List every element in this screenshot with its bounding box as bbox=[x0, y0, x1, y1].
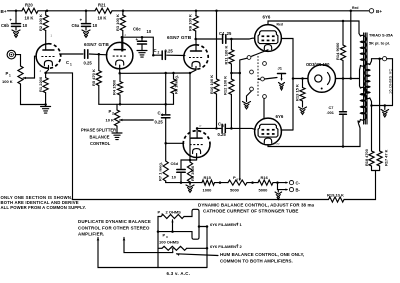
ground bbox=[247, 91, 252, 102]
svg-text:16 OHMS VC: 16 OHMS VC bbox=[389, 68, 393, 94]
resistor R10 bbox=[216, 11, 218, 79]
ground bbox=[141, 44, 143, 51]
svg-text:OD3/VR-150: OD3/VR-150 bbox=[306, 62, 330, 67]
svg-text:1: 1 bbox=[70, 63, 72, 67]
svg-text:R8 100 K: R8 100 K bbox=[188, 14, 193, 31]
svg-text:J1: J1 bbox=[278, 66, 283, 71]
wire to C- B- terminals bbox=[273, 182, 287, 184]
svg-text:PHASE SPLITTER: PHASE SPLITTER bbox=[81, 128, 116, 133]
svg-text:R21: R21 bbox=[98, 3, 106, 8]
svg-text:C6c: C6c bbox=[133, 27, 141, 32]
resistor R14 bbox=[342, 21, 344, 45]
svg-text:DYNAMIC BALANCE CONTROL, ADJU: DYNAMIC BALANCE CONTROL, ADJUST FOR 38 m… bbox=[198, 202, 315, 207]
filament 6Y6 number 2 bbox=[158, 227, 199, 240]
svg-text:10: 10 bbox=[93, 23, 98, 28]
svg-text:R20: R20 bbox=[25, 3, 33, 8]
potentiometer P2 bbox=[116, 104, 118, 110]
wire cathode 6Y6#1 to switch bbox=[252, 50, 269, 57]
transformer TRIAD S-35A primary bbox=[361, 35, 366, 66]
svg-text:5: 5 bbox=[222, 124, 224, 128]
ground bbox=[189, 183, 191, 185]
svg-text:6Y6 FILAMENT: 6Y6 FILAMENT bbox=[210, 244, 239, 249]
svg-text:+: + bbox=[9, 18, 12, 23]
capacitor C6c bbox=[141, 37, 143, 40]
transformer core bbox=[363, 33, 365, 124]
svg-text:6SN7 GTB: 6SN7 GTB bbox=[167, 35, 192, 41]
wire feedback bbox=[344, 171, 376, 200]
capacitor C4 bbox=[222, 35, 224, 43]
svg-text:0.25: 0.25 bbox=[155, 120, 164, 125]
wire plate V3 to C4 bbox=[196, 38, 222, 40]
wire P1 wiper to grid V1 bbox=[23, 56, 36, 78]
resistor R19 bbox=[329, 197, 345, 202]
svg-text:R14 9000: R14 9000 bbox=[335, 42, 340, 60]
resistor R13 bbox=[301, 77, 304, 80]
svg-text:R6 1 meg.: R6 1 meg. bbox=[174, 75, 179, 94]
svg-text:2: 2 bbox=[158, 51, 160, 55]
svg-text:R13 15 K: R13 15 K bbox=[295, 84, 300, 101]
svg-text:C: C bbox=[154, 48, 157, 53]
wire cathode V2 bbox=[119, 65, 121, 73]
svg-text:5K pl. to pl.: 5K pl. to pl. bbox=[369, 41, 390, 46]
svg-text:AMPLIFIER.: AMPLIFIER. bbox=[78, 232, 104, 237]
svg-text:0.25: 0.25 bbox=[84, 61, 93, 66]
svg-text:TRIAD S-35A: TRIAD S-35A bbox=[369, 33, 393, 38]
resistor R7 bbox=[165, 143, 167, 161]
svg-text:R15: R15 bbox=[204, 175, 212, 180]
svg-text:100 K: 100 K bbox=[2, 79, 13, 84]
capacitor C1 bbox=[84, 50, 86, 58]
svg-text:C6d: C6d bbox=[171, 161, 179, 166]
wire screen 6Y6#1 bbox=[281, 39, 293, 131]
potentiometer P5 bbox=[228, 180, 247, 185]
wire VR to B+ feed bbox=[336, 78, 358, 80]
wire plate V2 jog to C2 bbox=[122, 37, 154, 55]
tube VR OD3/VR-150 bbox=[308, 65, 336, 93]
wire P1 bottom bbox=[21, 84, 46, 105]
svg-text:10: 10 bbox=[23, 23, 28, 28]
svg-text:C6b: C6b bbox=[1, 23, 9, 28]
resistor R2 bbox=[43, 15, 48, 31]
wire top bus right bbox=[112, 10, 369, 12]
svg-text:5000: 5000 bbox=[259, 188, 269, 193]
svg-text:6Y6: 6Y6 bbox=[263, 15, 271, 20]
svg-text:6Y6 FILAMENT: 6Y6 FILAMENT bbox=[210, 222, 239, 227]
resistor R12 bbox=[229, 79, 234, 95]
svg-text:CONTROL: CONTROL bbox=[90, 141, 111, 146]
svg-text:R4 1500: R4 1500 bbox=[112, 79, 117, 95]
svg-text:C: C bbox=[218, 122, 221, 127]
potentiometer P4 bbox=[158, 216, 161, 218]
tube V2 6SN7 section B bbox=[107, 42, 133, 68]
ground bbox=[85, 26, 87, 30]
svg-text:5000: 5000 bbox=[230, 188, 240, 193]
potentiometer P1 bbox=[18, 66, 23, 84]
svg-text:BALANCE: BALANCE bbox=[90, 134, 110, 139]
ground bbox=[277, 190, 279, 192]
svg-text:1: 1 bbox=[9, 74, 11, 78]
wire jack to P1 bbox=[15, 55, 20, 66]
svg-text:R2 100 K: R2 100 K bbox=[38, 14, 43, 31]
svg-text:C: C bbox=[158, 111, 161, 116]
svg-text:C: C bbox=[66, 60, 69, 65]
wire switch to balance pot bbox=[240, 58, 247, 73]
wire cathode 6Y6#2 to switch bbox=[263, 98, 265, 118]
svg-text:3: 3 bbox=[162, 113, 164, 117]
svg-text:#: # bbox=[237, 244, 239, 248]
svg-text:10 K: 10 K bbox=[25, 16, 34, 21]
wire right rail bbox=[206, 227, 208, 268]
svg-text:ALL POWER FROM A COMMON SUPPLY: ALL POWER FROM A COMMON SUPPLY. bbox=[1, 205, 87, 210]
tube 6Y6 number 2 bbox=[255, 118, 282, 145]
svg-text:R17 47 K: R17 47 K bbox=[384, 149, 389, 166]
wire cathode V1 bbox=[46, 66, 49, 73]
ground bbox=[15, 26, 17, 30]
resistor R1 bbox=[43, 78, 48, 93]
wire secondary bottom bbox=[370, 98, 372, 106]
svg-text:0.25: 0.25 bbox=[218, 132, 227, 137]
svg-text:C-: C- bbox=[296, 181, 301, 186]
svg-text:6SN7 GTB: 6SN7 GTB bbox=[84, 42, 109, 48]
svg-text:R10 100 K: R10 100 K bbox=[209, 75, 214, 94]
switch dynamic balance contacts bbox=[247, 56, 251, 60]
wire secondary top / speaker bbox=[370, 59, 383, 65]
ground bbox=[45, 105, 47, 107]
filament 6Y6 number 1 bbox=[184, 211, 192, 216]
svg-text:COMMON TO BOTH AMPLIFIERS.: COMMON TO BOTH AMPLIFIERS. bbox=[220, 259, 293, 264]
capacitor C6d bbox=[180, 160, 182, 168]
capacitor C6b bbox=[15, 11, 17, 23]
tube V4 6SN7 section B bbox=[183, 144, 210, 157]
ground bbox=[116, 126, 118, 133]
svg-text:C4 .25: C4 .25 bbox=[219, 31, 232, 36]
wire cathode V4 bbox=[196, 154, 198, 160]
wire cathode V3 bbox=[190, 67, 196, 74]
capacitor C2 bbox=[153, 54, 161, 56]
wire feedback long bbox=[73, 199, 329, 201]
resistor R8 bbox=[195, 11, 197, 16]
svg-text:DUPLICATE DYNAMIC BALANCE: DUPLICATE DYNAMIC BALANCE bbox=[78, 219, 151, 224]
svg-text:R9 3900: R9 3900 bbox=[190, 165, 195, 181]
svg-text:C6a: C6a bbox=[72, 23, 80, 28]
resistor R18 bbox=[371, 106, 373, 152]
capacitor C6a bbox=[85, 11, 87, 23]
wire balance sense bbox=[231, 73, 239, 178]
svg-text:Red: Red bbox=[277, 23, 283, 27]
svg-text:R1 2200: R1 2200 bbox=[38, 76, 43, 92]
svg-text:CATHODE CURRENT OF STRONGER TU: CATHODE CURRENT OF STRONGER TUBE bbox=[203, 209, 298, 214]
wire C1 to grid V2 bbox=[89, 53, 107, 56]
capacitor C5 bbox=[221, 124, 223, 132]
svg-text:R3 100 K: R3 100 K bbox=[115, 14, 120, 31]
svg-text:6Y6: 6Y6 bbox=[276, 114, 284, 119]
svg-text:2: 2 bbox=[112, 112, 114, 116]
capacitor C7 bbox=[340, 111, 347, 113]
input jack bbox=[7, 50, 16, 59]
wire plate V1 bbox=[45, 31, 47, 51]
resistor R11 bbox=[230, 38, 233, 41]
svg-text:10: 10 bbox=[147, 29, 152, 34]
svg-text:10 K: 10 K bbox=[106, 118, 115, 123]
svg-text:B-: B- bbox=[296, 188, 301, 193]
wire plate 6Y6#2 to transformer bbox=[268, 121, 360, 147]
wire 6.3V left rail bbox=[157, 217, 159, 268]
wire feedback to cathode bbox=[46, 73, 73, 200]
resistor R6 bbox=[172, 72, 175, 75]
wire B+ down feed bbox=[350, 11, 352, 79]
svg-text:R11 100 K: R11 100 K bbox=[223, 45, 228, 64]
svg-text:Key: Key bbox=[275, 142, 281, 146]
resistor R15 bbox=[202, 180, 215, 185]
resistor R4 bbox=[117, 82, 122, 96]
svg-text:1000: 1000 bbox=[203, 188, 213, 193]
svg-text:10 K: 10 K bbox=[98, 16, 107, 21]
tube V1 6SN7 section A bbox=[36, 44, 48, 69]
svg-text:C7: C7 bbox=[329, 106, 334, 110]
svg-text:R18 4700: R18 4700 bbox=[364, 149, 369, 166]
resistor R3 bbox=[120, 15, 125, 31]
svg-text:P: P bbox=[200, 124, 202, 128]
tube 6Y6 number 1 bbox=[255, 25, 282, 52]
tube V3 6SN7 section A bbox=[184, 45, 196, 69]
svg-text:R5 470 K: R5 470 K bbox=[91, 69, 96, 86]
wire plate V1 to C1 bbox=[60, 53, 84, 55]
svg-text:HUM BALANCE CONTROL, ONE ONLY,: HUM BALANCE CONTROL, ONE ONLY, bbox=[220, 252, 304, 257]
svg-text:+: + bbox=[136, 37, 139, 42]
svg-text:0.25: 0.25 bbox=[165, 49, 174, 54]
wire common node bbox=[99, 103, 166, 105]
resistor R16 bbox=[258, 180, 273, 185]
svg-text:R19 10 K: R19 10 K bbox=[327, 193, 344, 198]
wire plate 6Y6#1 to transformer bbox=[268, 21, 359, 34]
node B+ right terminal bbox=[369, 9, 373, 13]
resistor R20 bbox=[22, 8, 38, 13]
wire top bus bbox=[38, 10, 95, 12]
svg-text:.001: .001 bbox=[327, 111, 334, 115]
svg-text:B+: B+ bbox=[376, 9, 382, 14]
wire plate V4 to C5 bbox=[197, 127, 221, 129]
svg-text:R7 1 meg.: R7 1 meg. bbox=[158, 162, 163, 181]
svg-text:CONTROL FOR OTHER STEREO: CONTROL FOR OTHER STEREO bbox=[78, 225, 150, 230]
svg-text:+: + bbox=[80, 18, 83, 23]
svg-text:6.3 v. A.C.: 6.3 v. A.C. bbox=[167, 271, 191, 276]
svg-text:100 OHMS: 100 OHMS bbox=[159, 240, 179, 245]
wire screen 6Y6#2 bbox=[281, 129, 293, 131]
svg-text:10: 10 bbox=[172, 175, 177, 180]
resistor R5 bbox=[98, 54, 100, 70]
wire plate V2 bbox=[122, 31, 124, 52]
resistor R21 bbox=[95, 8, 112, 13]
svg-text:B+: B+ bbox=[1, 9, 7, 14]
resistor R9 bbox=[189, 160, 191, 162]
capacitor C3 bbox=[164, 72, 167, 75]
wire 6.3 v bus bbox=[158, 267, 207, 269]
ground speaker bbox=[384, 106, 386, 110]
ground bus splitter bbox=[166, 182, 202, 184]
transformer secondary bbox=[365, 64, 370, 99]
svg-text:2 OHMS: 2 OHMS bbox=[166, 210, 182, 215]
wire screen node to VR bbox=[293, 78, 308, 80]
svg-text:Red: Red bbox=[352, 6, 358, 10]
svg-text:R16: R16 bbox=[261, 175, 269, 180]
resistor R17 bbox=[379, 59, 381, 151]
wire common cathodes bbox=[120, 72, 190, 74]
wire grid V4 bbox=[166, 142, 184, 144]
svg-text:#: # bbox=[237, 222, 239, 226]
svg-text:R12 100 K: R12 100 K bbox=[223, 76, 228, 95]
